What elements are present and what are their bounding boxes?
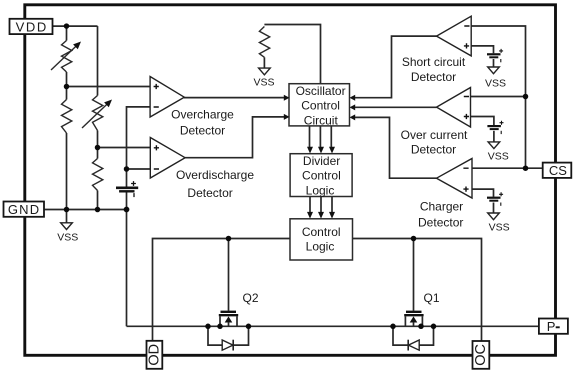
wire overdischarge - input to reference column [127, 168, 151, 170]
battery B1 (main reference) [116, 181, 138, 197]
arrowhead charger into oscillator [350, 114, 356, 120]
wire short circuit output to oscillator [355, 36, 437, 98]
wire overcharge output to oscillator [184, 97, 285, 99]
wire main source-drain rail to P- [127, 325, 539, 327]
op-amp U4 over current detector [437, 88, 471, 128]
resistor R2 (column1 bottom) [62, 100, 72, 134]
pin box VDD [10, 19, 53, 35]
arrowhead over current into oscillator [350, 104, 356, 110]
wire GND rail [44, 209, 127, 211]
op-amp U5 charger detector [437, 159, 473, 199]
wire over current battery to VSS arrow [493, 131, 495, 142]
wire overcharge - input to reference column [127, 107, 151, 188]
ground VSS arrow (charger ref) [488, 213, 500, 220]
svg-text:VSS: VSS [253, 77, 274, 89]
node D1 anode on rail [431, 324, 437, 330]
wire column2 mid [97, 131, 99, 159]
resistor R5 (top, oscillator RC) [259, 27, 269, 58]
svg-text:Overcharge: Overcharge [171, 107, 234, 121]
wire over current + input to reference battery [471, 117, 494, 126]
wire overdischarge output to oscillator [185, 117, 284, 158]
node D2 anode on rail [205, 324, 211, 330]
wire column2 lower [97, 191, 99, 210]
node D1 cathode on rail [390, 324, 396, 330]
wire node A to overcharge + input [67, 86, 151, 88]
node col2 on GND rail [95, 207, 101, 213]
svg-text:GND: GND [8, 202, 41, 217]
arrowhead short circuit into oscillator [350, 95, 356, 101]
wire column1 lower [66, 133, 68, 210]
svg-text:OD: OD [146, 344, 162, 366]
wire Q2 gate [228, 239, 230, 311]
op-amp U1 overcharge detector [150, 77, 184, 118]
battery B3 (over current ref) [487, 121, 503, 134]
wire over current output to oscillator [355, 106, 437, 108]
svg-text:Logic: Logic [306, 240, 335, 254]
svg-text:Detector: Detector [411, 70, 456, 84]
svg-text:Logic: Logic [306, 184, 335, 198]
diode D1 (Q1 body diode) [393, 326, 434, 350]
wire VDD to divider columns [53, 25, 98, 27]
node Q2 left leg on rail [217, 324, 223, 330]
svg-text:P: P [547, 319, 556, 334]
wire short circuit - input down the right reference bus [471, 26, 525, 168]
svg-text:Detector: Detector [411, 143, 456, 157]
svg-text:Charger: Charger [420, 200, 463, 214]
svg-text:Detector: Detector [187, 186, 232, 200]
node Q2 gate tap [226, 236, 232, 242]
ground VSS arrow (left, under GND rail) [61, 223, 73, 230]
wire node B to overdischarge + input [98, 147, 151, 149]
node B divider2 tap [95, 145, 101, 151]
svg-text:VDD: VDD [16, 19, 48, 34]
node col1 on GND rail [64, 207, 70, 213]
svg-text:Detector: Detector [180, 123, 225, 137]
wire column1 mid [66, 72, 68, 100]
svg-text:VSS: VSS [485, 77, 506, 89]
arrowhead overdischarge into oscillator [284, 114, 290, 120]
box divider control logic [290, 154, 352, 198]
pin box GND [4, 202, 45, 218]
wire charger - input to CS [472, 167, 543, 169]
ground VSS arrow (top, under R5) [259, 68, 271, 75]
svg-text:Detector: Detector [418, 215, 463, 229]
wire resistor R5 bottom stub to VSS arrow [263, 57, 265, 68]
node A divider1 tap [64, 84, 70, 90]
node Q1 right leg on rail [418, 324, 424, 330]
svg-text:Control: Control [302, 225, 341, 239]
wire charger output to oscillator [355, 117, 437, 178]
op-amp U2 overdischarge detector [150, 138, 185, 179]
node ref column on GND rail [124, 207, 130, 213]
pin box CS [543, 163, 572, 179]
wire short circuit + input to reference battery [471, 46, 493, 53]
ground VSS arrow (over current ref) [488, 142, 500, 149]
battery B2 (short circuit ref) [487, 49, 503, 62]
svg-text:VSS: VSS [57, 232, 78, 244]
wire column2 upper [97, 26, 99, 95]
svg-text:OC: OC [473, 344, 489, 366]
wire charger battery to VSS arrow [493, 203, 495, 213]
wire VSS stub below GND rail [66, 210, 68, 223]
resistor R4 (column2 bottom) [93, 159, 103, 191]
box oscillator control circuit [289, 84, 350, 128]
transistor Q2 [219, 312, 238, 327]
svg-text:Control: Control [302, 169, 341, 183]
wire column1 upper stub [66, 26, 68, 40]
node D2 cathode on rail [246, 324, 252, 330]
wire charger + input to reference battery [472, 189, 494, 197]
pin box OC [473, 341, 490, 369]
arrows oscillator to divider (3) [310, 126, 332, 147]
svg-text:Control: Control [301, 99, 340, 113]
wire over current - input to bus [471, 96, 526, 98]
svg-text:Short circuit: Short circuit [402, 55, 466, 69]
svg-text:Circuit: Circuit [304, 114, 339, 128]
pin box OD [146, 341, 162, 369]
svg-text:Q2: Q2 [242, 291, 258, 305]
transistor Q1 [404, 312, 423, 327]
arrowhead overcharge into oscillator [284, 95, 290, 101]
svg-text:Over current: Over current [401, 128, 468, 142]
node bus charger tap [523, 165, 529, 171]
wire top RC to oscillator [264, 25, 320, 84]
svg-text:Oscillator: Oscillator [296, 84, 346, 98]
svg-text:VSS: VSS [489, 222, 510, 234]
wire control logic right to OC pin [353, 239, 482, 342]
wire Q1 gate [413, 239, 415, 311]
svg-text:VSS: VSS [488, 151, 509, 163]
svg-text:CS: CS [549, 163, 567, 178]
resistor R3 variable (column2 top) [93, 96, 103, 131]
wire short circuit battery to VSS arrow [493, 59, 495, 67]
wire control logic left to OD pin [153, 239, 291, 342]
op-amp U3 short circuit detector [437, 16, 472, 56]
node Q1 gate tap [411, 236, 417, 242]
pin box P- [539, 319, 568, 335]
node VDD column junction [64, 23, 70, 29]
node bus over current tap [523, 94, 529, 100]
wire reference column below battery to Q2 rail [126, 193, 128, 327]
svg-text:Q1: Q1 [423, 291, 439, 305]
diode D2 (Q2 body diode) [208, 326, 249, 350]
battery B4 (charger ref) [487, 192, 503, 206]
node ref column overdischarge tap [124, 166, 130, 172]
box control logic [290, 219, 353, 260]
arrows divider to control logic (3) [310, 197, 332, 213]
resistor R1 variable (column1 top) [62, 41, 72, 73]
ground VSS arrow (short circuit ref) [488, 67, 500, 74]
svg-text:Divider: Divider [303, 154, 340, 168]
svg-text:Overdischarge: Overdischarge [176, 168, 254, 182]
